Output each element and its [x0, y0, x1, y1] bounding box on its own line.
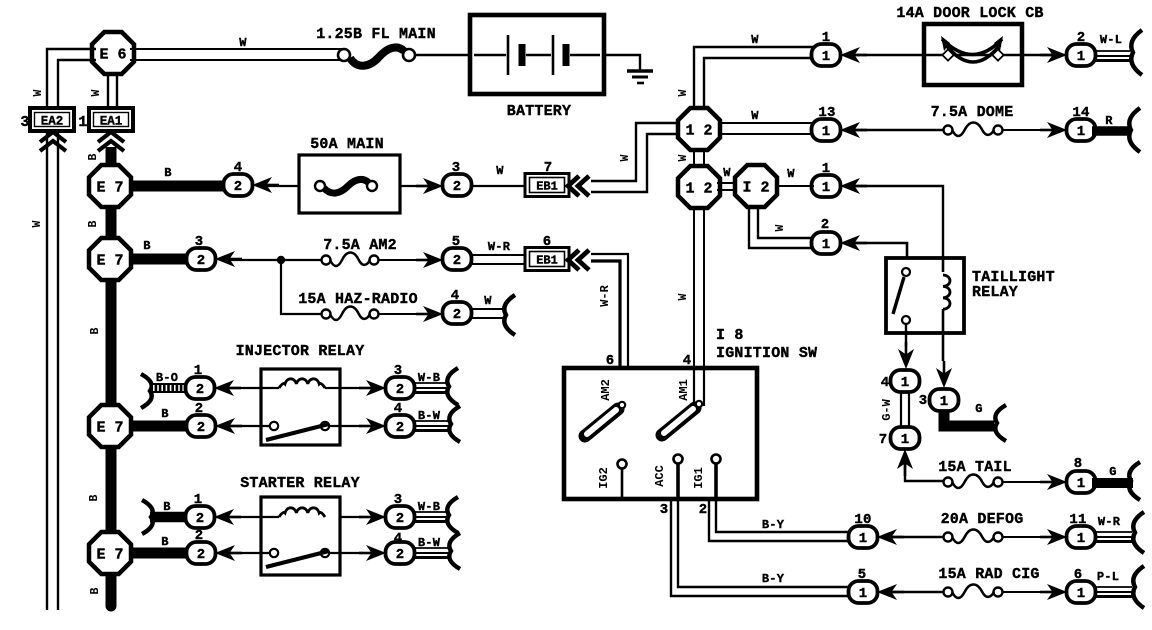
connector oval 1 (taillight coil feed) — [812, 175, 841, 197]
svg-text:7.5A AM2: 7.5A AM2 — [323, 237, 397, 254]
wire IG1 inside box — [714, 463, 718, 499]
svg-text:14A DOOR LOCK CB: 14A DOOR LOCK CB — [896, 5, 1043, 22]
pin number 13 — [818, 105, 835, 121]
injector relay switch — [266, 422, 329, 440]
pin number 4 starter — [394, 531, 403, 547]
svg-text:1.25B FL MAIN: 1.25B FL MAIN — [316, 26, 436, 43]
connector E7 row4 — [89, 532, 131, 574]
label W haz — [484, 294, 492, 308]
wire B-O hatched — [151, 383, 188, 393]
wire starter switch right — [329, 552, 362, 554]
wire fusible link to battery — [415, 54, 470, 56]
svg-text:E 7: E 7 — [96, 179, 123, 196]
connector oval 13 — [812, 119, 841, 141]
fuse 15A HAZ-RADIO — [322, 307, 379, 321]
arrow into oval 11 — [1040, 529, 1067, 545]
svg-text:G-W: G-W — [880, 398, 894, 420]
pin 4 label (AM1) — [683, 353, 692, 369]
svg-text:1: 1 — [1077, 476, 1085, 492]
svg-text:BATTERY: BATTERY — [507, 103, 571, 120]
svg-text:1: 1 — [822, 30, 831, 46]
svg-text:10: 10 — [854, 512, 871, 528]
svg-text:1 2: 1 2 — [685, 180, 712, 197]
svg-text:2: 2 — [197, 253, 205, 269]
contact IG2 — [618, 460, 627, 498]
svg-text:W: W — [751, 33, 759, 47]
chevron EB1 no6 — [568, 250, 589, 270]
svg-text:1: 1 — [1077, 531, 1085, 547]
wire label W (to dome) — [751, 109, 759, 123]
connector oval 3 (G) — [930, 389, 959, 411]
arrow down into oval 4 — [898, 342, 914, 369]
wire W junction1 to junction2 — [694, 148, 704, 168]
wire oval 10 to defog fuse — [890, 536, 944, 538]
arrow into oval 5 — [877, 584, 904, 600]
wire injector coil left — [227, 387, 261, 389]
svg-text:3: 3 — [660, 502, 669, 518]
connector oval 4 row2 — [443, 302, 472, 324]
pin 1 label of EA1 — [78, 114, 87, 131]
label W-L — [1100, 33, 1122, 47]
wire starter coil right — [340, 516, 362, 518]
arrow into oval 3 row2 — [215, 251, 242, 267]
svg-text:4: 4 — [234, 160, 243, 176]
connector oval 2 starter — [187, 542, 216, 564]
arrow into taillight switch oval — [840, 235, 867, 251]
label 20A DEFOG — [941, 511, 1024, 528]
wire R thick — [1092, 126, 1130, 136]
svg-text:3: 3 — [919, 393, 928, 409]
pin number 7 (taillight) — [879, 432, 888, 448]
arrow into starter switch oval — [215, 545, 242, 561]
wire W junction1 top to door lock oval — [694, 47, 814, 112]
pin number 5 — [858, 567, 867, 583]
pin number 14 — [1072, 105, 1089, 121]
fusible link element 50A — [315, 179, 377, 193]
hook B-W injector — [449, 406, 460, 442]
wire label W row1 — [496, 164, 504, 178]
svg-text:E 7: E 7 — [96, 419, 123, 436]
wire B-Y ACC to oval 5 — [671, 463, 849, 596]
svg-text:EB1: EB1 — [536, 254, 558, 268]
wire label B row3 — [161, 407, 168, 421]
svg-text:6: 6 — [543, 234, 552, 250]
svg-text:3: 3 — [394, 363, 403, 379]
wire B stub E7 row4 — [131, 548, 190, 559]
svg-text:2: 2 — [1077, 30, 1086, 46]
label 50A MAIN — [310, 136, 384, 153]
wire W haz — [471, 309, 503, 318]
wire door lock CB to oval — [853, 54, 924, 56]
arrow into oval 3 row1 — [416, 178, 443, 194]
wire defog fuse to oval 11 — [1002, 536, 1056, 538]
connector oval 2 door lock right — [1067, 44, 1096, 66]
svg-text:1: 1 — [901, 375, 909, 391]
svg-text:3: 3 — [394, 492, 403, 508]
svg-text:2: 2 — [197, 547, 205, 563]
pin number 3 (taillight) — [919, 393, 928, 409]
pin number 4 (taillight) — [881, 375, 890, 391]
arrow into oval 4 injector — [359, 418, 386, 434]
wire battery to ground — [604, 55, 640, 70]
wire starter coil left — [227, 516, 279, 518]
connector E7 row1 — [89, 165, 131, 207]
wire label W top — [239, 36, 247, 50]
wire oval13 to dome fuse — [853, 129, 944, 131]
wire injector switch right — [329, 425, 362, 427]
svg-text:W: W — [90, 89, 103, 96]
svg-text:E 7: E 7 — [96, 252, 123, 269]
svg-text:EA2: EA2 — [41, 115, 64, 129]
contact label AM1 — [677, 379, 691, 401]
wire B thick starter — [150, 512, 188, 523]
hook B starter — [142, 500, 153, 534]
label IGNITION SW — [716, 345, 817, 362]
lever AM2 — [585, 402, 625, 436]
svg-text:2: 2 — [196, 382, 204, 398]
wire G thick tail — [1092, 478, 1133, 488]
arrow down into oval 3 — [936, 361, 952, 388]
wire W junction3 to oval — [777, 185, 814, 187]
arrow into oval 5 row2 — [416, 252, 443, 268]
svg-text:G: G — [975, 402, 982, 416]
wire W EB1 no7 to junction 1-2 lower — [591, 134, 679, 192]
wire oval to AM2 fuse — [228, 259, 322, 261]
wire label B row1 — [164, 166, 171, 180]
taillight relay switch — [893, 268, 910, 324]
wire oval to taillight relay coil — [853, 186, 943, 266]
connector pin 3 oval row1 — [443, 174, 472, 196]
connector oval 4 starter — [386, 542, 415, 564]
svg-text:1: 1 — [1077, 586, 1085, 602]
wire W junction1 to dome oval — [719, 123, 814, 134]
injector relay box — [261, 369, 340, 445]
fusible link 50A MAIN box — [299, 155, 400, 213]
label G (tail right) — [1109, 465, 1116, 479]
pin 3 label of EA2 — [20, 114, 29, 131]
connector EB1 no6 — [525, 248, 569, 271]
connector E7 row2 — [89, 238, 131, 280]
wire label G-W — [880, 398, 894, 420]
svg-text:I 2: I 2 — [742, 179, 769, 196]
svg-text:B: B — [143, 239, 150, 253]
fuse 15A RAD CIG — [944, 585, 1003, 599]
svg-text:RELAY: RELAY — [972, 284, 1018, 301]
svg-text:2: 2 — [396, 511, 404, 527]
svg-text:1: 1 — [194, 492, 203, 508]
wire tail fuse to oval 8 — [1002, 481, 1056, 483]
svg-text:20A DEFOG: 20A DEFOG — [941, 511, 1024, 528]
wire label W vertical (junction riser) — [677, 89, 690, 96]
svg-text:1: 1 — [859, 531, 867, 547]
bus label B 3 — [88, 494, 101, 501]
svg-text:AM1: AM1 — [677, 379, 691, 401]
label P-L — [1097, 570, 1119, 584]
svg-text:5: 5 — [858, 567, 867, 583]
svg-text:2: 2 — [396, 547, 404, 563]
wire W-B injector — [413, 383, 446, 393]
wire W-R oval to EB1 no6 — [471, 255, 525, 264]
wire label B row4 — [161, 535, 168, 549]
wire label B (EA1-E7) — [87, 153, 100, 160]
svg-text:3: 3 — [20, 114, 29, 131]
svg-text:2: 2 — [453, 307, 461, 323]
ground bus E7 vertical — [106, 200, 117, 606]
connector EB1 no7 — [525, 174, 569, 197]
connector oval 1 injector — [186, 377, 215, 399]
arrow into oval 10 — [877, 529, 904, 545]
pin number 3 injector — [394, 363, 403, 379]
svg-text:1: 1 — [822, 49, 830, 65]
arrow into oval 3 starter — [359, 509, 386, 525]
wire label B-Y defog — [762, 518, 785, 532]
svg-text:3: 3 — [452, 160, 461, 176]
svg-text:7: 7 — [879, 432, 888, 448]
label W-R row2 — [488, 240, 511, 254]
arrow into oval 3 injector — [359, 380, 386, 396]
label 15A HAZ-RADIO — [298, 291, 418, 308]
wire W-L — [1094, 51, 1130, 61]
label W-B injector — [418, 371, 440, 385]
arrow into oval 8 — [1040, 474, 1067, 490]
svg-text:4: 4 — [451, 288, 460, 304]
svg-text:W: W — [677, 89, 690, 96]
starter relay switch — [266, 549, 329, 567]
label I 8 — [716, 327, 744, 344]
wire haz branch down — [281, 260, 322, 314]
hook B-O — [141, 374, 152, 408]
svg-text:15A HAZ-RADIO: 15A HAZ-RADIO — [298, 291, 418, 308]
svg-text:B-Y: B-Y — [762, 572, 785, 586]
contact ACC — [674, 455, 683, 464]
hook W-R defog — [1133, 512, 1144, 553]
wire label W (left pair upper) — [32, 89, 45, 96]
wire W from E6 to EA1 — [108, 72, 117, 110]
junction connector I-2 — [735, 165, 777, 207]
svg-text:4: 4 — [394, 531, 403, 547]
pin number 5 row2 — [452, 234, 461, 250]
pin number 2 starter — [195, 528, 204, 544]
connector oval 10 — [849, 526, 878, 548]
chevron under EA2 — [40, 132, 66, 151]
svg-text:W: W — [484, 294, 492, 308]
pin number 2 injector — [195, 401, 204, 417]
arrow up into oval 7 — [897, 449, 913, 476]
wire rad cig fuse to oval 6 — [1002, 591, 1056, 593]
svg-text:11: 11 — [1069, 512, 1086, 528]
connector oval 5 row2 — [443, 248, 472, 270]
bus label B 1 — [87, 220, 100, 227]
connector oval 8 — [1067, 471, 1096, 493]
connector oval 1 door lock left — [812, 44, 841, 66]
label B starter — [163, 500, 170, 514]
svg-text:4: 4 — [394, 401, 403, 417]
label BATTERY — [507, 103, 571, 120]
pin number 1 starter — [194, 492, 203, 508]
pin number 3 starter — [394, 492, 403, 508]
pin number 6 row2 — [543, 234, 552, 250]
connector oval 4 (G-W) — [891, 370, 920, 392]
label STARTER RELAY — [240, 475, 360, 492]
label W-R defog — [1098, 515, 1121, 529]
svg-text:1: 1 — [822, 124, 830, 140]
hook G taillight — [995, 405, 1006, 441]
taillight relay coil wire in — [942, 258, 945, 272]
pin number 8 — [1074, 456, 1083, 472]
connector oval 2 (taillight switch feed) — [812, 232, 841, 254]
svg-text:EB1: EB1 — [536, 180, 558, 194]
pin number 3 — [452, 160, 461, 176]
wire W EB1 no7 to junction 1-2 upper — [591, 123, 679, 181]
wire label B row2 — [143, 239, 150, 253]
label 15A TAIL — [938, 459, 1012, 476]
wire oval to taillight relay switch — [853, 243, 907, 269]
arrow into injector coil oval — [214, 380, 241, 396]
label R — [1105, 114, 1113, 128]
wire B-W starter — [413, 548, 448, 558]
pin number 1 injector — [194, 363, 203, 379]
junction connector 1-2 upper — [678, 108, 720, 150]
svg-text:W: W — [32, 89, 45, 96]
svg-text:2: 2 — [195, 401, 204, 417]
arrow into injector switch oval — [215, 418, 242, 434]
svg-text:50A MAIN: 50A MAIN — [310, 136, 384, 153]
svg-text:1: 1 — [940, 394, 948, 410]
battery box — [470, 15, 604, 94]
pin number 2 (taillight sw feed) — [821, 217, 830, 233]
wire haz fuse to oval 4 — [378, 313, 432, 315]
battery cells — [474, 35, 600, 75]
pin number 1 (taillight feed) — [822, 161, 831, 177]
starter relay box — [261, 497, 340, 575]
svg-text:W: W — [31, 220, 44, 227]
bus label B 4 — [89, 587, 102, 594]
chevron EB1 no7 — [568, 176, 589, 196]
svg-text:1: 1 — [194, 363, 203, 379]
label G (taillight) — [975, 402, 982, 416]
wire starter switch left — [228, 552, 270, 554]
svg-text:B: B — [161, 407, 168, 421]
wire label W vertical (AM1 feed) — [677, 293, 690, 300]
wire B stub E7 row3 — [131, 421, 190, 432]
hook B-W starter — [449, 533, 460, 569]
hook R — [1129, 108, 1140, 152]
svg-text:IG2: IG2 — [597, 467, 611, 489]
svg-text:B-O: B-O — [156, 371, 178, 385]
svg-text:4: 4 — [683, 353, 692, 369]
svg-text:W: W — [723, 166, 731, 180]
bus label B 2 — [89, 327, 102, 334]
wire label W vertical (EB1 riser) — [619, 154, 632, 161]
svg-text:1: 1 — [78, 114, 87, 131]
hook P-L — [1133, 566, 1144, 608]
connector oval 6 — [1067, 581, 1096, 603]
pin number 4 row2 — [451, 288, 460, 304]
hook W haz — [504, 295, 515, 335]
wire label W (junction2-3) — [723, 166, 731, 180]
junction connector 1-2 lower — [678, 166, 720, 208]
pin number 3 row2 — [195, 234, 204, 250]
fuse 7.5A AM2 — [322, 253, 379, 267]
pin number 1 (door lock left) — [822, 30, 831, 46]
svg-text:IGNITION SW: IGNITION SW — [716, 345, 817, 362]
connector oval 11 — [1067, 526, 1096, 548]
pin number 10 — [854, 512, 871, 528]
hook W-B starter — [447, 497, 458, 533]
wire ACC inside box — [676, 463, 680, 499]
lever AM1 — [662, 401, 702, 435]
wire W E6 to fusible link — [130, 49, 342, 60]
wire 50A MAIN box to oval 3 — [400, 185, 432, 187]
junction dot — [277, 256, 285, 264]
label 7.5A AM2 — [323, 237, 397, 254]
starter relay coil — [279, 508, 325, 517]
label B-O — [156, 371, 178, 385]
svg-text:2: 2 — [396, 382, 404, 398]
svg-text:1: 1 — [901, 432, 909, 448]
svg-text:STARTER RELAY: STARTER RELAY — [240, 475, 360, 492]
svg-text:R: R — [1105, 114, 1113, 128]
svg-text:13: 13 — [818, 105, 835, 121]
svg-text:E 6: E 6 — [99, 46, 126, 63]
wire W-B starter — [413, 512, 446, 522]
connector EA1 — [89, 108, 133, 131]
connector E6 — [92, 32, 134, 74]
connector oval 1 starter — [186, 506, 215, 528]
wire CB box to right oval — [1022, 54, 1056, 57]
wire P-L — [1094, 587, 1132, 597]
arrow into oval 6 — [1040, 584, 1067, 600]
contact label IG1 — [692, 467, 706, 489]
pin 2 label (IG1) — [699, 502, 708, 518]
wire W junction2 to junction3 — [717, 183, 737, 190]
svg-text:B: B — [87, 220, 100, 227]
svg-text:B: B — [161, 535, 168, 549]
connector oval 7 (G-W) — [891, 427, 920, 449]
svg-text:W: W — [774, 224, 787, 231]
svg-text:1: 1 — [822, 237, 830, 253]
wire taillight switch out — [905, 324, 907, 346]
label 1.25B FL MAIN — [316, 26, 436, 43]
svg-text:1: 1 — [822, 161, 831, 177]
svg-text:5: 5 — [452, 234, 461, 250]
pin number 6 (rad cig) — [1074, 567, 1083, 583]
contact label AM2 — [599, 379, 613, 401]
wire label W vertical (junction3 drop) — [774, 224, 787, 231]
label B-W injector — [418, 409, 441, 423]
arrow into oval 14 — [1040, 122, 1067, 138]
svg-text:4: 4 — [881, 375, 890, 391]
wire oval 5 to rad cig fuse — [890, 591, 944, 593]
svg-text:6: 6 — [1074, 567, 1083, 583]
svg-text:I 8: I 8 — [716, 327, 744, 344]
wire B stub E7 row1 — [131, 181, 228, 192]
wire label W (left pair lower) — [31, 220, 44, 227]
pin number 2 (door lock right) — [1077, 30, 1086, 46]
wire W junction2 to ignition AM1 — [694, 206, 704, 406]
ignition switch box — [564, 368, 757, 499]
circuit breaker 14A DOOR LOCK CB box — [924, 24, 1022, 85]
wire B stub E7 row2 — [131, 254, 190, 265]
svg-text:W: W — [677, 293, 690, 300]
hook G tail — [1129, 462, 1140, 500]
connector oval 3 injector — [386, 377, 415, 399]
svg-text:8: 8 — [1074, 456, 1083, 472]
wire W junction3 down to taillight oval — [749, 206, 814, 248]
fusible link 1.25B FL MAIN — [338, 47, 415, 65]
svg-text:P-L: P-L — [1097, 570, 1119, 584]
fuse 15A TAIL — [944, 475, 1003, 489]
